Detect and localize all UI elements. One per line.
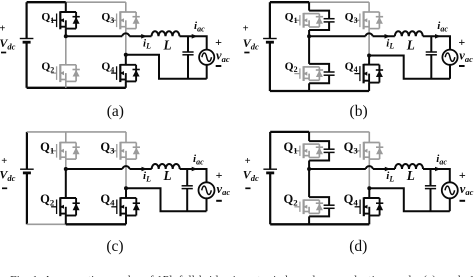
svg-text:Fig. 1. An operation modes of: Fig. 1. An operation modes of 1Ph full-b…: [10, 273, 474, 277]
wire node B to Q4 d: [368, 188, 370, 198]
wire hop (no connection): [366, 166, 373, 169]
wire ac source to return b: [449, 65, 451, 79]
battery - d: [245, 187, 250, 189]
capacitor Cf c: [182, 169, 193, 211]
transistor Q1 a (on): [51, 11, 80, 29]
node B d: [367, 186, 371, 190]
capacitor Cf a: [182, 36, 193, 79]
wire Q3 source to node B c: [125, 159, 127, 188]
vac - c: [216, 200, 222, 202]
wire top rail gray d: [309, 131, 369, 133]
wire node B to output return b: [369, 56, 450, 79]
wire phase node to inductor c: [66, 168, 123, 170]
wire bottom rail d: [270, 223, 369, 225]
arrow iac b: [435, 34, 441, 39]
wire top rail black a: [27, 1, 66, 3]
wire hop (no connection): [122, 33, 129, 36]
wire Q3 source to node B d: [368, 159, 370, 188]
wire bottom rail b: [270, 90, 369, 92]
wire Q1 drain a: [65, 2, 67, 12]
svg-text:+: +: [1, 156, 7, 167]
wire ac source to return a: [206, 65, 208, 79]
wire inductor to output a: [180, 36, 207, 49]
wire top rail gray c: [27, 131, 126, 133]
capacitor Cf d: [425, 169, 436, 211]
svg-text:+: +: [0, 24, 5, 35]
svg-text:+: +: [243, 24, 249, 35]
wire Q2 to bottom rail a: [65, 81, 67, 87]
svg-text:L: L: [406, 168, 415, 183]
wire node to Q2 c: [65, 169, 67, 198]
svg-text:(b): (b): [350, 103, 368, 120]
transistor Q2 a (off): [51, 64, 80, 82]
battery - c: [2, 187, 7, 189]
wire Q2 to bottom rail b: [308, 83, 310, 91]
wire Q4 to bottom rail c: [125, 216, 127, 225]
svg-text:+: +: [459, 168, 466, 182]
wire node to Q2 a: [65, 36, 67, 65]
svg-text:L: L: [163, 168, 172, 183]
battery Vdc a: [20, 2, 34, 88]
wire inductor to output c: [180, 169, 207, 182]
transistor Q3 c (off): [111, 142, 140, 160]
inductor L d: [395, 164, 423, 169]
battery Vdc b: [263, 2, 277, 91]
wire inductor to output b: [423, 36, 450, 49]
transistor Q4 c (on): [111, 197, 140, 216]
transistor Q3 b (off): [354, 11, 383, 29]
wire Q3 drain d: [368, 132, 370, 143]
wire Q2 to bottom rail c: [65, 216, 67, 225]
wire Q3 drain b: [368, 2, 370, 12]
wire hop (no connection): [366, 33, 373, 36]
wire Q1 source to node b: [308, 30, 310, 36]
battery Vdc d: [263, 132, 277, 224]
vac - b: [459, 65, 465, 67]
wire Q1 drain c: [65, 132, 67, 143]
node B b: [367, 54, 371, 58]
arrow iac a: [192, 34, 198, 39]
svg-text:(c): (c): [106, 238, 123, 255]
vac - a: [216, 65, 222, 67]
wire top rail black b: [270, 1, 309, 3]
capacitor across Q2 b: [309, 64, 335, 83]
svg-text:L: L: [406, 38, 415, 53]
node B c: [124, 186, 128, 190]
wire hop to inductor d: [373, 168, 395, 170]
wire Q4 to bottom rail a: [125, 81, 127, 87]
wire Q3 drain a: [125, 2, 127, 12]
arrow iac c: [192, 167, 198, 172]
arrow iL a: [141, 34, 147, 39]
capacitor across Q1 d: [309, 141, 335, 160]
node A a: [64, 34, 68, 38]
arrow iac d: [435, 167, 441, 172]
transistor Q2 d (off): [294, 199, 323, 214]
svg-text:+: +: [245, 156, 251, 167]
wire node B to output return a: [126, 55, 207, 79]
transistor Q3 a (off): [111, 11, 140, 29]
wire Q3 drain c: [125, 132, 127, 143]
wire node B to Q4 c: [125, 188, 127, 198]
battery - b: [244, 52, 249, 54]
wire node to Q2 d: [308, 169, 310, 197]
capacitor Cf b: [426, 36, 437, 79]
transistor Q4 b (on): [354, 64, 383, 83]
wire phase node to inductor b: [309, 35, 366, 37]
wire phase node to inductor a: [66, 35, 123, 37]
transistor Q4 d (on): [355, 197, 384, 216]
capacitor across Q2 d: [309, 197, 335, 216]
wire Q1 drain b: [308, 2, 310, 10]
ac source vac c: [199, 182, 215, 198]
inductor L b: [395, 31, 423, 36]
transistor Q4 a (on): [111, 64, 140, 82]
wire Q4 to bottom rail b: [368, 83, 370, 91]
wire hop (no connection): [123, 166, 130, 169]
battery - a: [1, 52, 6, 54]
wire bottom rail gray c: [27, 223, 66, 225]
wire hop to inductor c: [130, 168, 152, 170]
transistor Q1 b (off): [294, 13, 323, 28]
wire ac source to return c: [206, 198, 208, 211]
transistor Q1 d (off): [294, 143, 323, 158]
wire Q1 source to node c: [65, 159, 67, 169]
node A b: [307, 34, 311, 38]
arrow iL d: [385, 167, 391, 172]
wire bottom rail a: [27, 87, 126, 89]
svg-text:+: +: [458, 35, 465, 49]
node A d: [307, 167, 311, 171]
wire node B to Q4 a: [125, 55, 127, 65]
node B a: [124, 53, 128, 57]
wire top rail gray a: [66, 1, 126, 3]
wire phase node to inductor d: [309, 168, 366, 170]
wire node B to output return c: [126, 188, 207, 211]
svg-text:(a): (a): [107, 103, 124, 120]
arrow iL c: [142, 167, 148, 172]
ac source vac b: [442, 50, 457, 65]
wire node to Q2 b: [308, 36, 310, 64]
wire bottom rail black c: [66, 223, 126, 225]
ac source vac a: [199, 50, 214, 65]
wire top rail black d: [270, 131, 309, 133]
node A c: [64, 167, 68, 171]
wire node B to Q4 b: [368, 56, 370, 65]
wire inductor to output d: [423, 169, 450, 182]
wire Q1 source to node a: [65, 29, 67, 37]
battery Vdc c: [20, 132, 34, 224]
svg-text:+: +: [215, 35, 222, 49]
wire Q4 to bottom rail d: [368, 216, 370, 225]
svg-text:(d): (d): [349, 238, 367, 255]
wire node B to output return d: [369, 188, 450, 211]
wire Q2 to bottom rail d: [308, 216, 310, 224]
transistor Q2 b (off): [294, 66, 323, 81]
inductor L a: [152, 31, 180, 36]
wire top rail gray b: [309, 1, 369, 3]
ac source vac d: [442, 182, 458, 198]
capacitor across Q1 b: [309, 11, 335, 30]
wire Q3 source to node B b: [368, 29, 370, 56]
transistor Q2 c (on): [51, 197, 80, 216]
transistor Q1 c (off): [51, 142, 80, 160]
vac - d: [460, 200, 466, 202]
wire hop to inductor b: [373, 35, 395, 37]
wire Q1 drain d: [308, 132, 310, 141]
arrow iL b: [385, 34, 391, 39]
wire hop to inductor a: [129, 35, 151, 37]
transistor Q3 d (off): [355, 142, 384, 160]
inductor L c: [152, 164, 180, 169]
wire Q3 source to node B a: [125, 29, 127, 55]
svg-text:+: +: [216, 168, 223, 182]
wire Q1 source to node d: [308, 161, 310, 170]
svg-text:L: L: [163, 38, 172, 53]
wire ac source to return d: [449, 198, 451, 211]
